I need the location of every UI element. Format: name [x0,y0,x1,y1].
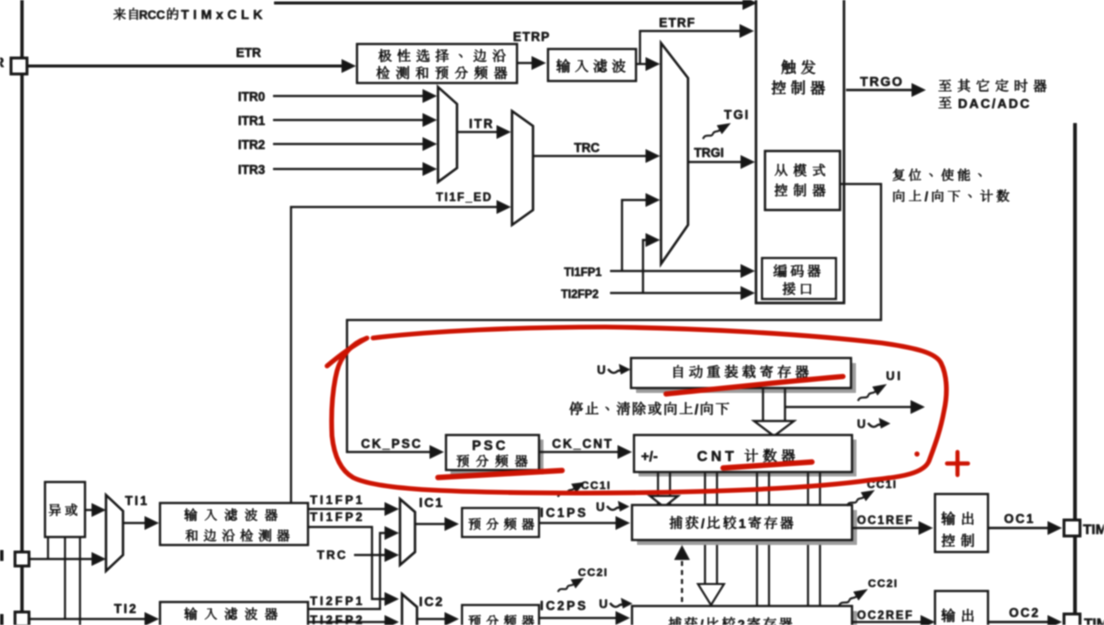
svg-text:OC2REF: OC2REF [857,610,914,622]
bus arrows CNT to capture/compare [657,472,659,505]
svg-text:RCC: RCC [139,8,165,22]
pin TIMx_CH1 out [1064,520,1080,536]
red underline PSC [438,471,562,478]
svg-text:IC1PS: IC1PS [540,506,588,520]
label reset enable up/down count [893,169,905,181]
svg-text:+/-: +/- [641,448,658,464]
svg-text:CK_PSC: CK_PSC [361,437,423,451]
svg-text:TI1FP1: TI1FP1 [564,267,602,279]
box capture/compare 1 register [637,510,857,545]
wire CK_CNT [539,451,619,453]
svg-text:CK_CNT: CK_CNT [552,437,614,451]
svg-text:/: / [925,190,929,204]
wire TI1FP1 to encoder [610,270,743,272]
svg-text:ITR2: ITR2 [238,138,265,152]
svg-text:U: U [597,363,606,377]
red dot [914,451,919,456]
box PSC prescaler [451,440,544,475]
mux TRC select [512,111,533,225]
box trigger controller [756,0,844,303]
svg-text:TIM: TIM [1084,615,1104,625]
label to other timers / DAC ADC [939,80,952,91]
svg-text:TI2: TI2 [114,602,138,616]
svg-text:ITR1: ITR1 [238,114,265,128]
box capture/compare 2 register [637,611,857,625]
mux TRGI select (big) [661,43,688,264]
box polarity/edge-detect/prescaler [357,44,517,83]
box auto-reload register [636,363,856,393]
flag CC1I left [555,477,587,501]
svg-text:TIMxCLK: TIMxCLK [181,7,267,22]
svg-text:TRC: TRC [574,141,600,155]
wire TRGI [688,161,743,163]
wire TI2FP1 up to IC1 mux [308,533,387,609]
flag CC1I right [844,486,877,511]
svg-text:R: R [0,54,4,70]
svg-text:ETRF: ETRF [659,16,696,30]
box prescaler IC2 [462,605,539,625]
mux IC1 select [400,499,415,565]
svg-text:TRGO: TRGO [860,74,904,89]
flag CC2I left [556,573,587,596]
svg-text:ETR: ETR [236,46,261,60]
svg-text:TI2FP2: TI2FP2 [561,289,599,301]
wire to input filter [517,62,534,64]
wire slave ctrl to prescaler/counter [347,184,881,452]
box input filter ETR [548,49,636,81]
box input filter edge detector 1 [160,503,308,545]
wire TRC to IC1 mux [354,554,387,556]
svg-text:U: U [596,500,605,514]
svg-text:1: 1 [739,516,746,531]
svg-text:OC1: OC1 [1004,512,1035,526]
svg-text:TRGI: TRGI [694,146,724,160]
svg-text:UI: UI [886,369,903,383]
wire IC1PS [539,522,617,524]
svg-text:2: 2 [738,617,745,625]
wire TI1FP2 down to IC2 mux [308,527,387,599]
wire OC1REF [852,527,920,529]
box prescaler IC1 [462,508,539,537]
red underline auto-reload [666,377,843,395]
svg-text:PSC: PSC [472,438,508,453]
wire TRC [533,155,648,157]
svg-text:TI2FP1: TI2FP1 [310,594,365,608]
wire TI2FP2 to encoder [610,292,743,294]
wire TI1F_ED [291,207,499,503]
svg-text:OC1REF: OC1REF [857,515,914,527]
svg-text:CC2I: CC2I [868,578,898,590]
svg-text:TGI: TGI [724,108,750,122]
svg-text:/: / [700,617,704,625]
wire CH1 to mux [29,558,95,560]
svg-text:TRC: TRC [317,548,348,562]
wire IC2PS [540,617,617,619]
hollow arrow reload to CNT [762,388,764,421]
flag TGI [700,119,733,144]
wire TI2FP2 branch to TRGI mux [643,240,648,293]
svg-text:ITR0: ITR0 [238,90,265,104]
svg-text:ITR3: ITR3 [238,163,265,177]
svg-text:TI1FP1: TI1FP1 [310,493,365,507]
red plus mark [947,461,968,465]
wire ETR [28,64,344,67]
wire IC1 [415,523,447,525]
mux ITR select [438,87,457,182]
svg-text:TI2FP2: TI2FP2 [310,613,365,625]
svg-text:U: U [599,597,608,611]
wire TI2 [29,618,148,620]
wire ETRF branch to trigger controller [640,31,742,63]
wire TI1FP1 branch to TRGI mux [622,200,648,271]
svg-text:CC2I: CC2I [578,567,608,579]
wire IC2 [417,618,447,620]
wire OC1 [988,527,1049,529]
wire TI2FP2 to IC2 mux [308,621,387,623]
pin TIMx_CH1 in [0,550,4,561]
label stop clear up/down [570,402,583,415]
svg-text:DAC/ADC: DAC/ADC [958,96,1031,111]
wire ITR [457,131,499,133]
left chip boundary line [20,0,23,625]
svg-text:TI1FP2: TI1FP2 [310,510,365,524]
svg-text:ETRP: ETRP [513,30,550,44]
flag UI update interrupt [855,380,889,406]
XOR input stubs [47,537,49,560]
svg-text:CC1I: CC1I [581,480,611,492]
svg-text:IC2: IC2 [419,594,444,609]
flag CC2I right [836,585,870,611]
svg-text:TIM: TIM [1083,521,1104,537]
box encoder interface [762,258,836,299]
box input filter edge detector 2 [160,602,308,625]
wire ETRF to mux [636,63,649,65]
wire XOR out [85,509,95,511]
label TIMxCLK from RCC [114,8,126,20]
wire TIMxCLK [274,1,746,4]
box XOR [45,482,85,537]
svg-text:ITR: ITR [469,117,494,131]
box output control 1 [935,494,988,552]
wire U event to right [786,406,911,408]
svg-text:CNT: CNT [697,449,737,465]
red underline CNT [723,462,812,468]
mux TI1 select [106,495,123,571]
wire TI1FP1 to IC1 mux [308,508,387,510]
wire TRGO [846,89,912,91]
box CNT counter [639,440,857,477]
right chip boundary line [1073,123,1077,625]
svg-text:IC1: IC1 [419,495,444,510]
svg-text:TI1: TI1 [125,494,149,508]
red circle annotation around prescaler/counter [332,327,947,493]
wire TI1 [123,522,148,524]
mux IC2 select [402,594,417,625]
svg-text:/: / [701,516,705,531]
pin TIMx_CH2 in [0,614,4,625]
svg-text:OC2: OC2 [1009,606,1040,620]
pin TIMx_CH2 out [1064,614,1080,625]
wire OC2REF [852,621,922,623]
svg-text:IC2PS: IC2PS [540,599,588,613]
box output control 2 [935,591,988,625]
svg-text:U: U [857,417,866,431]
dashed capture transfer arrow [681,559,683,602]
red pen hook stroke top-left [327,338,367,366]
svg-text:/: / [695,402,699,417]
svg-text:TI1F_ED: TI1F_ED [436,192,493,204]
wire OC2 [988,621,1049,623]
box slave mode controller [765,151,840,210]
